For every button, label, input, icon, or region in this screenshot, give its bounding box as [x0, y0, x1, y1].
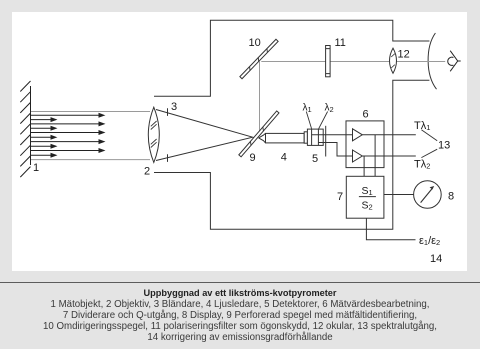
svg-text:1: 1 — [33, 162, 39, 174]
svg-text:13: 13 — [438, 139, 450, 151]
svg-text:9: 9 — [250, 152, 256, 164]
svg-text:Tλ2: Tλ2 — [414, 158, 430, 170]
svg-text:10: 10 — [249, 37, 261, 49]
svg-text:6: 6 — [363, 109, 369, 121]
svg-text:7: 7 — [337, 191, 343, 203]
svg-text:5: 5 — [312, 153, 318, 165]
svg-text:4: 4 — [281, 151, 287, 163]
svg-text:3: 3 — [171, 101, 177, 113]
svg-text:λ1: λ1 — [303, 103, 312, 114]
svg-text:12: 12 — [398, 49, 410, 61]
svg-text:λ2: λ2 — [325, 103, 334, 114]
svg-text:11: 11 — [335, 37, 346, 49]
svg-text:Tλ1: Tλ1 — [414, 120, 430, 132]
svg-text:14: 14 — [430, 253, 442, 265]
svg-text:8: 8 — [448, 191, 454, 203]
svg-text:ε1/ε2: ε1/ε2 — [419, 235, 440, 247]
svg-text:2: 2 — [144, 166, 150, 178]
